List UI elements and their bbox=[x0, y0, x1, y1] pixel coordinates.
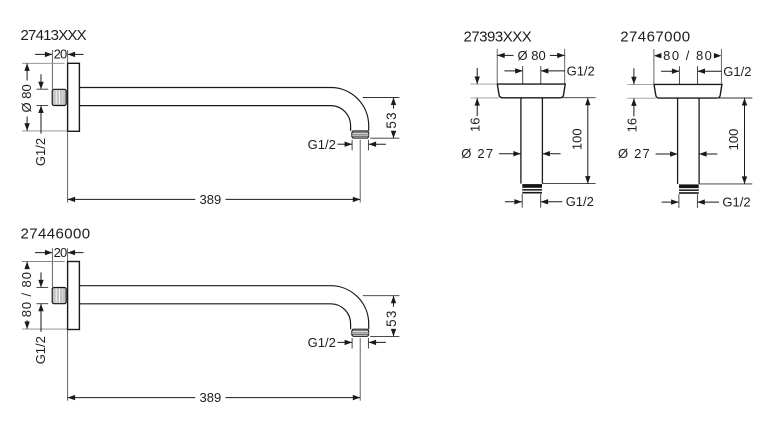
svg-text:16: 16 bbox=[624, 118, 639, 132]
svg-text:389: 389 bbox=[200, 192, 222, 207]
outlet G1/2 arrows drawing2 bbox=[338, 341, 353, 343]
extension line plate-left-top drawing2 bbox=[67, 248, 69, 261]
extension line sleeve-left drawing1 bbox=[51, 50, 53, 89]
dimension 80 / 80 line drawing2 bbox=[26, 262, 28, 269]
svg-text:100: 100 bbox=[726, 129, 741, 151]
extension line plate-bottom drawing1 bbox=[22, 130, 67, 132]
flange tick top drawing3 bbox=[470, 83, 497, 85]
sleeve tick bottom drawing2 bbox=[37, 303, 49, 305]
svg-text:G1/2: G1/2 bbox=[566, 194, 594, 209]
extension line flange-bottom drawing3 bbox=[561, 97, 596, 99]
svg-text:G1/2: G1/2 bbox=[33, 138, 48, 166]
pipe left edge drawing4 bbox=[677, 98, 679, 184]
dimension 389 line drawing2 bbox=[68, 397, 196, 399]
extension line outlet-axis drawing1 bbox=[359, 140, 361, 203]
svg-text:Ø 27: Ø 27 bbox=[461, 146, 494, 161]
svg-text:27446000: 27446000 bbox=[21, 225, 91, 242]
pipe right edge drawing4 bbox=[698, 98, 700, 184]
svg-text:80 / 80: 80 / 80 bbox=[19, 271, 34, 317]
threaded sleeve drawing1 bbox=[52, 89, 66, 105]
bottom thread ext line right drawing4 bbox=[696, 194, 698, 208]
svg-text:27413XXX: 27413XXX bbox=[21, 27, 87, 44]
svg-text:Ø 27: Ø 27 bbox=[618, 146, 651, 161]
svg-text:20: 20 bbox=[54, 47, 67, 62]
ceiling flange drawing3 bbox=[497, 84, 565, 98]
outlet ext line right drawing2 bbox=[367, 338, 369, 348]
dimension 20 arrows drawing1 bbox=[35, 53, 52, 55]
sleeve dimension arrows drawing2 bbox=[40, 272, 42, 287]
top thread ext line left drawing3 bbox=[522, 66, 524, 84]
svg-text:53: 53 bbox=[384, 309, 399, 326]
outlet ext line left drawing1 bbox=[351, 140, 353, 150]
pipe right edge drawing3 bbox=[541, 98, 543, 184]
svg-text:G1/2: G1/2 bbox=[567, 64, 595, 79]
top thread ext line right drawing4 bbox=[697, 66, 699, 84]
extension line plate-top drawing1 bbox=[22, 62, 65, 64]
bottom thread ext line left drawing3 bbox=[521, 194, 523, 208]
svg-text:G1/2: G1/2 bbox=[33, 336, 48, 364]
top G1/2 arrows drawing4 bbox=[661, 70, 679, 72]
bottom G1/2 arrows drawing3 bbox=[505, 201, 522, 203]
extension line plate-left-top drawing1 bbox=[67, 50, 69, 63]
svg-text:G1/2: G1/2 bbox=[723, 64, 751, 79]
extension line arm-axis drawing2 bbox=[363, 295, 400, 297]
svg-text:16: 16 bbox=[468, 118, 483, 132]
shower arm pipe inner contour drawing1 bbox=[79, 106, 350, 131]
extension line outlet-end drawing2 bbox=[370, 335, 399, 337]
outlet ext line left drawing2 bbox=[351, 338, 353, 348]
dimension 53 line drawing1 bbox=[393, 98, 395, 109]
pipe left edge drawing3 bbox=[520, 98, 522, 184]
extension line pipe-end drawing3 bbox=[542, 183, 595, 185]
bottom thread ext line right drawing3 bbox=[540, 194, 542, 208]
bottom thread nipple drawing4 bbox=[679, 184, 699, 193]
wall plate drawing2 bbox=[68, 262, 80, 330]
outlet thread nipple drawing1 bbox=[352, 131, 369, 138]
top thread ext line left drawing4 bbox=[678, 66, 680, 84]
extension line plate-left-bottom drawing1 bbox=[67, 131, 69, 202]
Ø27 arrows drawing4 bbox=[656, 153, 678, 155]
svg-text:27467000: 27467000 bbox=[620, 29, 690, 46]
sleeve dimension arrows drawing1 bbox=[40, 74, 42, 89]
extension line plate-bottom drawing2 bbox=[22, 328, 67, 330]
dimension 16 arrows drawing4 bbox=[633, 68, 635, 84]
bottom G1/2 arrows drawing4 bbox=[662, 201, 679, 203]
svg-text:20: 20 bbox=[54, 245, 67, 260]
dimension 100 line drawing4 bbox=[744, 98, 746, 184]
extension line arm-axis drawing1 bbox=[363, 97, 400, 99]
flange ext line left drawing3 bbox=[496, 49, 498, 84]
Ø27 arrows drawing3 bbox=[499, 153, 521, 155]
shower arm pipe outer contour drawing2 bbox=[79, 286, 368, 329]
dimension 389 line drawing1 bbox=[68, 198, 196, 200]
dimension 53 line drawing2 bbox=[393, 296, 395, 307]
svg-text:389: 389 bbox=[200, 390, 222, 405]
extension line plate-left-bottom drawing2 bbox=[67, 330, 69, 401]
outlet ext line right drawing1 bbox=[367, 140, 369, 150]
top G1/2 arrows drawing3 bbox=[504, 70, 522, 72]
flange tick bottom drawing3 bbox=[470, 97, 499, 99]
dimension 20 arrows drawing2 bbox=[35, 252, 52, 254]
svg-text:27393XXX: 27393XXX bbox=[464, 28, 532, 45]
extension line flange-bottom drawing4 bbox=[717, 97, 752, 99]
extension line outlet-axis drawing2 bbox=[359, 338, 361, 401]
outlet G1/2 arrows drawing1 bbox=[338, 143, 353, 145]
dimension 100 line drawing3 bbox=[587, 98, 589, 184]
flange ext line left drawing4 bbox=[653, 49, 655, 84]
svg-text:G1/2: G1/2 bbox=[308, 335, 336, 350]
bottom thread nipple drawing3 bbox=[522, 184, 542, 193]
dimension 16 arrows drawing3 bbox=[476, 68, 478, 84]
svg-text:G1/2: G1/2 bbox=[308, 137, 336, 152]
sleeve tick bottom drawing1 bbox=[37, 105, 49, 107]
flange tick top drawing4 bbox=[627, 83, 654, 85]
dimension 80 / 80 line drawing4 bbox=[654, 53, 662, 58]
flange ext line right drawing4 bbox=[720, 49, 722, 84]
bottom thread ext line left drawing4 bbox=[678, 194, 680, 208]
outlet thread nipple drawing2 bbox=[352, 329, 369, 336]
dimension &#216; 80 line drawing1 bbox=[26, 64, 28, 81]
sleeve tick top drawing2 bbox=[37, 286, 49, 288]
dimension &#216; 80 line drawing3 bbox=[497, 54, 513, 56]
extension line sleeve-left drawing2 bbox=[51, 248, 53, 287]
svg-text:Ø 80: Ø 80 bbox=[518, 48, 546, 63]
flange tick bottom drawing4 bbox=[627, 97, 656, 99]
extension line plate-top drawing2 bbox=[22, 261, 65, 263]
extension line outlet-end drawing1 bbox=[370, 137, 399, 139]
shower arm pipe outer contour drawing1 bbox=[79, 88, 368, 131]
flange ext line right drawing3 bbox=[564, 49, 566, 84]
svg-text:100: 100 bbox=[569, 128, 584, 150]
wall plate drawing1 bbox=[68, 63, 80, 131]
sleeve tick top drawing1 bbox=[37, 88, 49, 90]
svg-text:Ø 80: Ø 80 bbox=[19, 84, 34, 112]
shower arm pipe inner contour drawing2 bbox=[79, 304, 350, 329]
ceiling flange drawing4 bbox=[654, 84, 722, 98]
threaded sleeve drawing2 bbox=[52, 288, 66, 304]
svg-text:G1/2: G1/2 bbox=[722, 195, 750, 210]
svg-text:53: 53 bbox=[384, 111, 399, 128]
extension line pipe-end drawing4 bbox=[699, 183, 752, 185]
top thread ext line right drawing3 bbox=[540, 66, 542, 84]
svg-text:80 / 80: 80 / 80 bbox=[663, 48, 713, 63]
